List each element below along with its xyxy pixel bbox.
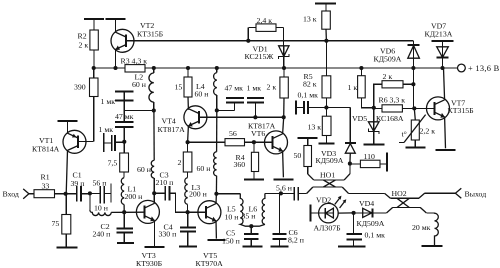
- chassis stub over 13к: [315, 2, 336, 4]
- chassis stub over VT1: [57, 120, 77, 122]
- svg-text:КД509А: КД509А: [357, 219, 385, 228]
- svg-text:1 мк: 1 мк: [247, 83, 262, 92]
- capacitor 1мк column x255: [247, 83, 264, 117]
- svg-text:82 к: 82 к: [303, 79, 317, 88]
- thermistor 2,2к: [399, 108, 435, 147]
- resistor R1 33: [34, 173, 66, 198]
- svg-text:20 мк: 20 мк: [412, 223, 431, 232]
- diode VD4 КД509А: [354, 199, 387, 228]
- ground under 75: [57, 247, 78, 249]
- diode VD6 КД509А: [374, 41, 420, 68]
- resistor 15: [175, 68, 193, 110]
- svg-text:47 мк: 47 мк: [225, 83, 244, 92]
- svg-text:1 мк: 1 мк: [99, 125, 114, 134]
- svg-text:КД509А: КД509А: [316, 156, 344, 165]
- resistor R4 360: [234, 142, 259, 179]
- wire VT1 base line: [78, 141, 94, 143]
- wire VT5 base line: [188, 211, 206, 213]
- svg-text:2: 2: [178, 158, 182, 167]
- svg-text:R1: R1: [41, 173, 50, 182]
- svg-text:0,1 мк: 0,1 мк: [365, 231, 386, 240]
- transistor VT7 КТ315Б: [414, 68, 474, 148]
- chassis stub over 50: [298, 137, 318, 139]
- svg-text:33: 33: [42, 182, 50, 191]
- svg-text:75: 75: [52, 219, 60, 228]
- ground under C6: [270, 246, 288, 248]
- svg-text:10 н: 10 н: [225, 212, 239, 221]
- chassis stub under 13к lower: [318, 143, 334, 145]
- svg-text:t°: t°: [402, 130, 407, 139]
- transistor VT5 КТ970А: [196, 194, 224, 268]
- resistor 13к top: [303, 3, 330, 40]
- resistor 75: [52, 194, 71, 248]
- resistor 56: [188, 129, 254, 146]
- svg-text:10 н: 10 н: [94, 203, 108, 212]
- svg-text:R2: R2: [78, 32, 87, 41]
- svg-text:0,1 мк: 0,1 мк: [298, 91, 319, 100]
- svg-text:VT6: VT6: [251, 129, 265, 138]
- resistor 50: [294, 138, 312, 174]
- wire L4 node to 47мк: [217, 109, 235, 111]
- inductor L3 200н: [185, 178, 207, 213]
- terminal +13,6В: [458, 64, 500, 73]
- transistor VT4 КТ817А: [158, 106, 207, 142]
- svg-text:Вход: Вход: [3, 189, 19, 198]
- svg-text:390: 390: [74, 83, 86, 92]
- svg-text:2 к: 2 к: [267, 83, 277, 92]
- LED VD2 АЛ307Б: [310, 196, 353, 233]
- inductor L1 200н: [121, 178, 142, 213]
- svg-text:60 н: 60 н: [132, 80, 146, 89]
- svg-text:150 п: 150 п: [222, 237, 240, 246]
- svg-text:56: 56: [229, 129, 237, 138]
- wire bus y=40.5 VT2 base to VD6: [127, 40, 414, 42]
- svg-text:35 н: 35 н: [242, 212, 256, 221]
- resistor R5 82к: [303, 41, 331, 108]
- svg-text:VD2: VD2: [316, 196, 331, 205]
- svg-text:R3 4,3 к: R3 4,3 к: [121, 56, 148, 65]
- transistor VT6 КТ817А: [248, 117, 288, 177]
- diode VD3 КД509А: [316, 143, 356, 166]
- svg-text:15: 15: [175, 83, 183, 92]
- svg-text:240 п: 240 п: [93, 229, 111, 238]
- svg-text:7,5: 7,5: [108, 158, 118, 167]
- wire VT5 collector node: [216, 193, 240, 195]
- inductor 60н second: [197, 152, 217, 194]
- chassis stub over VD7: [431, 40, 453, 42]
- resistor 390: [74, 68, 98, 142]
- chassis stub under thermistor: [405, 147, 425, 149]
- svg-text:330 п: 330 п: [159, 230, 177, 239]
- capacitor C2 240п: [93, 212, 134, 242]
- capacitor 47мк column x234: [225, 83, 245, 110]
- capacitor C1 39п: [66, 171, 90, 202]
- svg-text:КТ970А: КТ970А: [196, 259, 224, 268]
- svg-text:HO1: HO1: [320, 170, 335, 179]
- capacitor 47мк column x124: [115, 111, 134, 142]
- resistor 110: [350, 152, 387, 168]
- svg-text:8,2 п: 8,2 п: [288, 236, 304, 245]
- wire L2 bottom down: [153, 111, 155, 161]
- resistor R6 3,3к: [374, 96, 415, 112]
- resistor 2к right: [374, 72, 414, 117]
- svg-text:VD4: VD4: [359, 199, 374, 208]
- inductor 20мк: [412, 213, 438, 246]
- ground under VT3: [145, 246, 165, 248]
- ground under VT6: [274, 178, 294, 180]
- svg-text:60 н: 60 н: [137, 165, 151, 174]
- ground under C2: [117, 242, 134, 244]
- svg-text:2 к: 2 к: [79, 40, 89, 49]
- svg-text:39 п: 39 п: [71, 179, 85, 188]
- svg-text:2 к: 2 к: [383, 72, 393, 81]
- svg-text:КТ817А: КТ817А: [158, 125, 186, 134]
- capacitor 5,6н: [276, 184, 307, 201]
- svg-text:Выход: Выход: [465, 189, 487, 198]
- resistor 2,4к: [248, 16, 283, 46]
- ground under R4: [244, 178, 264, 180]
- inductor 10н: [90, 194, 144, 216]
- inductor L4 60н: [195, 68, 217, 110]
- resistor 1к: [348, 68, 374, 108]
- zener VD5 КС168А: [352, 114, 404, 144]
- transistor VT2 КТ315Б: [111, 19, 164, 68]
- transistor VT1 КТ814А: [32, 122, 86, 194]
- capacitor 1мк column x124: [101, 92, 134, 111]
- inductor 60н third: [137, 160, 154, 201]
- svg-text:47 мк: 47 мк: [115, 112, 134, 121]
- wire main +13.6V rail y=68: [94, 67, 457, 69]
- wire L1 tap line: [110, 184, 112, 203]
- svg-text:60 н: 60 н: [197, 164, 211, 173]
- resistor 7,5: [108, 142, 129, 178]
- svg-text:R6 3,3 к: R6 3,3 к: [379, 96, 406, 105]
- svg-text:КС168А: КС168А: [376, 114, 404, 123]
- capacitor 0,1мк right: [346, 213, 385, 246]
- svg-text:1 мк: 1 мк: [101, 97, 116, 106]
- svg-text:HO2: HO2: [392, 189, 407, 198]
- svg-text:2,2 к: 2,2 к: [420, 126, 436, 135]
- svg-text:КТ315Б: КТ315Б: [448, 106, 475, 115]
- capacitor 56п: [90, 178, 111, 203]
- connector HO2: [385, 189, 456, 213]
- connector HO1: [307, 164, 385, 194]
- capacitor C6 8,2п: [272, 193, 304, 246]
- zener VD1 КС215Ж: [245, 44, 290, 68]
- capacitor C5 150п: [222, 226, 258, 246]
- capacitor C3 210п: [154, 171, 187, 213]
- ground under VT5: [208, 239, 226, 241]
- svg-text:КД213А: КД213А: [425, 29, 453, 38]
- svg-text:200 н: 200 н: [189, 190, 207, 199]
- ground under C4: [179, 246, 197, 248]
- capacitor C4 330п: [159, 212, 197, 246]
- svg-text:VD5: VD5: [352, 114, 367, 123]
- svg-text:КТ315Б: КТ315Б: [137, 29, 164, 38]
- ground under 0,1мк: [338, 246, 365, 248]
- svg-text:60 н: 60 н: [195, 89, 209, 98]
- chassis stub over VT2: [106, 18, 126, 20]
- ground under C5: [242, 246, 262, 248]
- ground under 20мк: [422, 245, 443, 247]
- svg-text:КТ814А: КТ814А: [32, 145, 60, 154]
- capacitor 0,1мк horizontal: [296, 91, 326, 115]
- svg-text:1 к: 1 к: [348, 83, 358, 92]
- inductor L2 60н: [132, 68, 154, 111]
- transistor VT3 КТ930Б: [136, 193, 163, 268]
- wire L4 node down: [216, 110, 218, 151]
- input terminal Вход: [3, 189, 35, 199]
- resistor 2к mid: [267, 68, 289, 117]
- resistor 2: [178, 142, 192, 177]
- svg-text:50: 50: [294, 151, 302, 160]
- resistor R3 4,3к inline rail: [121, 56, 148, 72]
- wire 1мк to L2 bottom: [124, 110, 154, 112]
- svg-text:360: 360: [234, 160, 246, 169]
- capacitor 1мк inline: [99, 125, 125, 152]
- svg-text:2,4 к: 2,4 к: [257, 16, 273, 25]
- svg-text:210 п: 210 п: [156, 178, 174, 187]
- chassis stub under VD5: [364, 143, 385, 145]
- svg-text:13 к: 13 к: [308, 122, 322, 131]
- svg-text:+ 13,6 В: + 13,6 В: [468, 64, 500, 73]
- wire R5 node to VD3: [326, 108, 350, 143]
- chassis stub over R2: [84, 18, 104, 20]
- resistor R2 2к: [78, 19, 99, 68]
- chassis stub right of 110: [386, 152, 388, 171]
- svg-text:110: 110: [364, 152, 376, 161]
- diode VD7 КД213А: [425, 21, 453, 68]
- wire L6 top to 5,6н node: [265, 192, 281, 194]
- resistor 13к lower: [308, 108, 332, 144]
- svg-text:АЛ307Б: АЛ307Б: [314, 223, 342, 232]
- svg-text:КД509А: КД509А: [374, 54, 402, 63]
- svg-text:КТ930Б: КТ930Б: [136, 259, 163, 268]
- svg-text:13 к: 13 к: [303, 15, 317, 24]
- svg-text:КС215Ж: КС215Ж: [245, 52, 274, 61]
- output terminal Выход: [455, 188, 486, 198]
- inductor L6 35н: [242, 193, 265, 226]
- wire VD6 column below rail: [412, 68, 414, 108]
- svg-text:56 п: 56 п: [93, 178, 107, 187]
- wire VT4 base line: [199, 116, 284, 118]
- svg-text:5,6 н: 5,6 н: [276, 184, 292, 193]
- svg-text:200 н: 200 н: [125, 192, 143, 201]
- inductor L5 10н: [225, 194, 252, 226]
- ground under VT7: [436, 149, 456, 151]
